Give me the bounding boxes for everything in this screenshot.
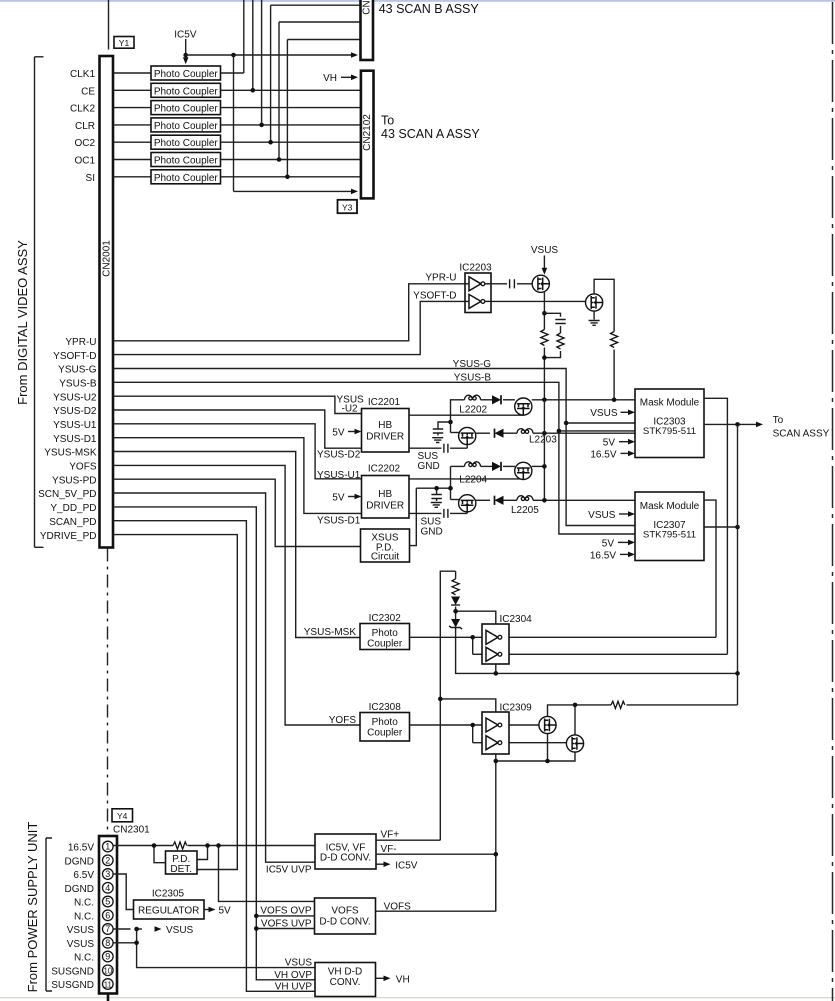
svg-text:CONV.: CONV. [330, 977, 361, 988]
svg-text:VSUS: VSUS [588, 510, 616, 521]
svg-text:VSUS: VSUS [67, 925, 95, 936]
svg-text:VH OVP: VH OVP [274, 970, 312, 981]
svg-text:9: 9 [105, 952, 110, 962]
svg-text:SUSGND: SUSGND [51, 980, 94, 991]
svg-text:VOFS: VOFS [331, 906, 359, 917]
svg-text:VH UVP: VH UVP [275, 981, 313, 992]
svg-text:YSUS-MSK: YSUS-MSK [304, 627, 357, 638]
svg-text:YSOFT-D: YSOFT-D [413, 290, 456, 301]
svg-text:VSUS: VSUS [67, 939, 95, 950]
svg-text:Photo Coupler: Photo Coupler [154, 138, 219, 149]
svg-text:VF+: VF+ [381, 830, 400, 841]
svg-text:REGULATOR: REGULATOR [138, 906, 199, 917]
svg-text:Mask Module: Mask Module [640, 398, 700, 409]
svg-text:YSUS-D2: YSUS-D2 [317, 450, 361, 461]
svg-text:L2204: L2204 [459, 475, 487, 486]
svg-text:YPR-U: YPR-U [65, 337, 96, 348]
svg-text:L2203: L2203 [529, 435, 557, 446]
svg-text:Photo Coupler: Photo Coupler [154, 156, 219, 167]
svg-text:IC5V: IC5V [395, 860, 418, 871]
svg-text:1: 1 [105, 842, 110, 852]
svg-text:D-D CONV.: D-D CONV. [320, 853, 371, 864]
svg-text:Mask Module: Mask Module [640, 501, 700, 512]
svg-text:43 SCAN A ASSY: 43 SCAN A ASSY [381, 127, 480, 141]
svg-text:DRIVER: DRIVER [366, 432, 404, 443]
svg-text:STK795-511: STK795-511 [643, 529, 696, 540]
svg-text:IC5V: IC5V [174, 30, 197, 41]
svg-text:Y3: Y3 [342, 202, 353, 212]
svg-text:YSUS-B: YSUS-B [454, 373, 492, 384]
svg-text:From POWER SUPPLY UNIT: From POWER SUPPLY UNIT [25, 822, 40, 993]
svg-text:IC2202: IC2202 [368, 464, 401, 475]
svg-text:To: To [381, 114, 394, 128]
svg-text:5V: 5V [602, 538, 615, 549]
svg-text:YSUS-U2: YSUS-U2 [53, 392, 97, 403]
svg-text:SCN_5V_PD: SCN_5V_PD [38, 489, 96, 500]
svg-text:Y4: Y4 [117, 811, 128, 821]
svg-text:VSUS: VSUS [590, 408, 618, 419]
svg-text:YSUS-MSK: YSUS-MSK [44, 448, 97, 459]
svg-text:YOFS: YOFS [329, 715, 357, 726]
svg-text:16.5V: 16.5V [590, 550, 616, 561]
svg-text:IC2302: IC2302 [369, 613, 402, 624]
svg-text:YSUS-U1: YSUS-U1 [53, 420, 97, 431]
svg-text:N.C.: N.C. [74, 911, 94, 922]
svg-text:CN: CN [362, 0, 373, 14]
svg-text:GND: GND [421, 527, 443, 538]
svg-text:CN2102: CN2102 [362, 114, 373, 151]
svg-text:16.5V: 16.5V [590, 449, 616, 460]
svg-text:IC2201: IC2201 [368, 397, 401, 408]
svg-text:43 SCAN B ASSY: 43 SCAN B ASSY [379, 2, 480, 16]
svg-text:To: To [773, 415, 784, 426]
svg-text:8: 8 [105, 938, 110, 948]
svg-text:DET.: DET. [170, 864, 192, 875]
svg-text:Y_DD_PD: Y_DD_PD [50, 503, 96, 514]
svg-text:11: 11 [104, 980, 112, 989]
svg-text:Photo Coupler: Photo Coupler [154, 69, 219, 80]
svg-text:Photo Coupler: Photo Coupler [154, 173, 219, 184]
svg-text:5: 5 [105, 897, 110, 907]
svg-text:10: 10 [103, 967, 112, 976]
svg-text:SUSGND: SUSGND [51, 966, 94, 977]
svg-text:VOFS OVP: VOFS OVP [260, 906, 311, 917]
svg-text:N.C.: N.C. [74, 898, 94, 909]
svg-text:L2202: L2202 [459, 405, 487, 416]
svg-text:Photo: Photo [372, 717, 399, 728]
svg-text:CLK2: CLK2 [70, 104, 95, 115]
svg-text:CN2001: CN2001 [102, 240, 113, 277]
svg-text:5V: 5V [603, 438, 616, 449]
svg-text:2: 2 [105, 855, 110, 865]
svg-text:From DIGITAL VIDEO ASSY: From DIGITAL VIDEO ASSY [15, 240, 30, 405]
svg-text:IC2305: IC2305 [152, 889, 185, 900]
svg-text:Coupler: Coupler [367, 639, 403, 650]
svg-text:CN2301: CN2301 [113, 825, 150, 836]
svg-text:VOFS UVP: VOFS UVP [261, 918, 312, 929]
svg-text:-U2: -U2 [342, 403, 359, 414]
svg-text:SI: SI [86, 173, 95, 184]
svg-text:GND: GND [418, 461, 440, 472]
svg-text:VH D-D: VH D-D [328, 967, 362, 978]
svg-text:Coupler: Coupler [367, 728, 403, 739]
svg-text:SCAN_PD: SCAN_PD [49, 517, 96, 528]
svg-text:YSUS-D1: YSUS-D1 [53, 434, 97, 445]
svg-text:7: 7 [105, 924, 110, 934]
svg-text:CE: CE [81, 86, 95, 97]
svg-text:IC2203: IC2203 [459, 263, 492, 274]
svg-text:YSUS-G: YSUS-G [58, 365, 97, 376]
svg-text:Y1: Y1 [119, 38, 130, 48]
svg-text:VSUS: VSUS [285, 958, 313, 969]
svg-text:YSUS-G: YSUS-G [453, 359, 492, 370]
svg-text:Circuit: Circuit [371, 552, 400, 563]
svg-text:SCAN ASSY: SCAN ASSY [773, 429, 830, 440]
svg-text:YSOFT-D: YSOFT-D [53, 351, 96, 362]
svg-text:N.C.: N.C. [74, 953, 94, 964]
svg-text:CLR: CLR [75, 121, 95, 132]
svg-text:Photo: Photo [372, 628, 399, 639]
svg-text:16.5V: 16.5V [68, 843, 94, 854]
svg-text:DRIVER: DRIVER [366, 501, 404, 512]
svg-text:VSUS: VSUS [166, 925, 194, 936]
svg-text:YOFS: YOFS [69, 462, 97, 473]
svg-text:YSUS-D2: YSUS-D2 [53, 406, 97, 417]
svg-text:YDRIVE_PD: YDRIVE_PD [40, 531, 97, 542]
svg-text:YSUS-D1: YSUS-D1 [317, 516, 361, 527]
svg-text:4: 4 [105, 883, 110, 893]
svg-text:CLK1: CLK1 [70, 69, 95, 80]
svg-text:D-D CONV.: D-D CONV. [319, 917, 370, 928]
svg-text:YSUS-PD: YSUS-PD [52, 475, 96, 486]
svg-text:HB: HB [378, 489, 392, 500]
svg-text:DGND: DGND [65, 856, 94, 867]
svg-text:OC1: OC1 [74, 156, 95, 167]
svg-text:VH: VH [396, 974, 410, 985]
svg-text:5V: 5V [332, 493, 345, 504]
svg-text:IC5V UVP: IC5V UVP [266, 865, 312, 876]
svg-text:STK795-511: STK795-511 [643, 426, 696, 437]
svg-text:6: 6 [105, 910, 110, 920]
svg-text:Photo Coupler: Photo Coupler [154, 104, 219, 115]
svg-text:YSUS-U1: YSUS-U1 [317, 470, 361, 481]
svg-text:DGND: DGND [65, 884, 94, 895]
svg-text:OC2: OC2 [74, 138, 95, 149]
svg-text:IC2308: IC2308 [369, 702, 402, 713]
svg-text:Photo Coupler: Photo Coupler [154, 121, 219, 132]
svg-text:VSUS: VSUS [531, 245, 559, 256]
svg-text:5V: 5V [219, 906, 232, 917]
svg-text:VH: VH [323, 73, 337, 84]
svg-text:Photo Coupler: Photo Coupler [154, 86, 219, 97]
svg-text:HB: HB [378, 420, 392, 431]
svg-text:3: 3 [105, 869, 110, 879]
svg-text:VF-: VF- [381, 844, 397, 855]
svg-text:YSUS-B: YSUS-B [59, 379, 97, 390]
svg-text:YPR-U: YPR-U [425, 273, 456, 284]
svg-text:5V: 5V [332, 428, 345, 439]
svg-text:6.5V: 6.5V [73, 870, 94, 881]
svg-text:L2205: L2205 [511, 505, 539, 516]
